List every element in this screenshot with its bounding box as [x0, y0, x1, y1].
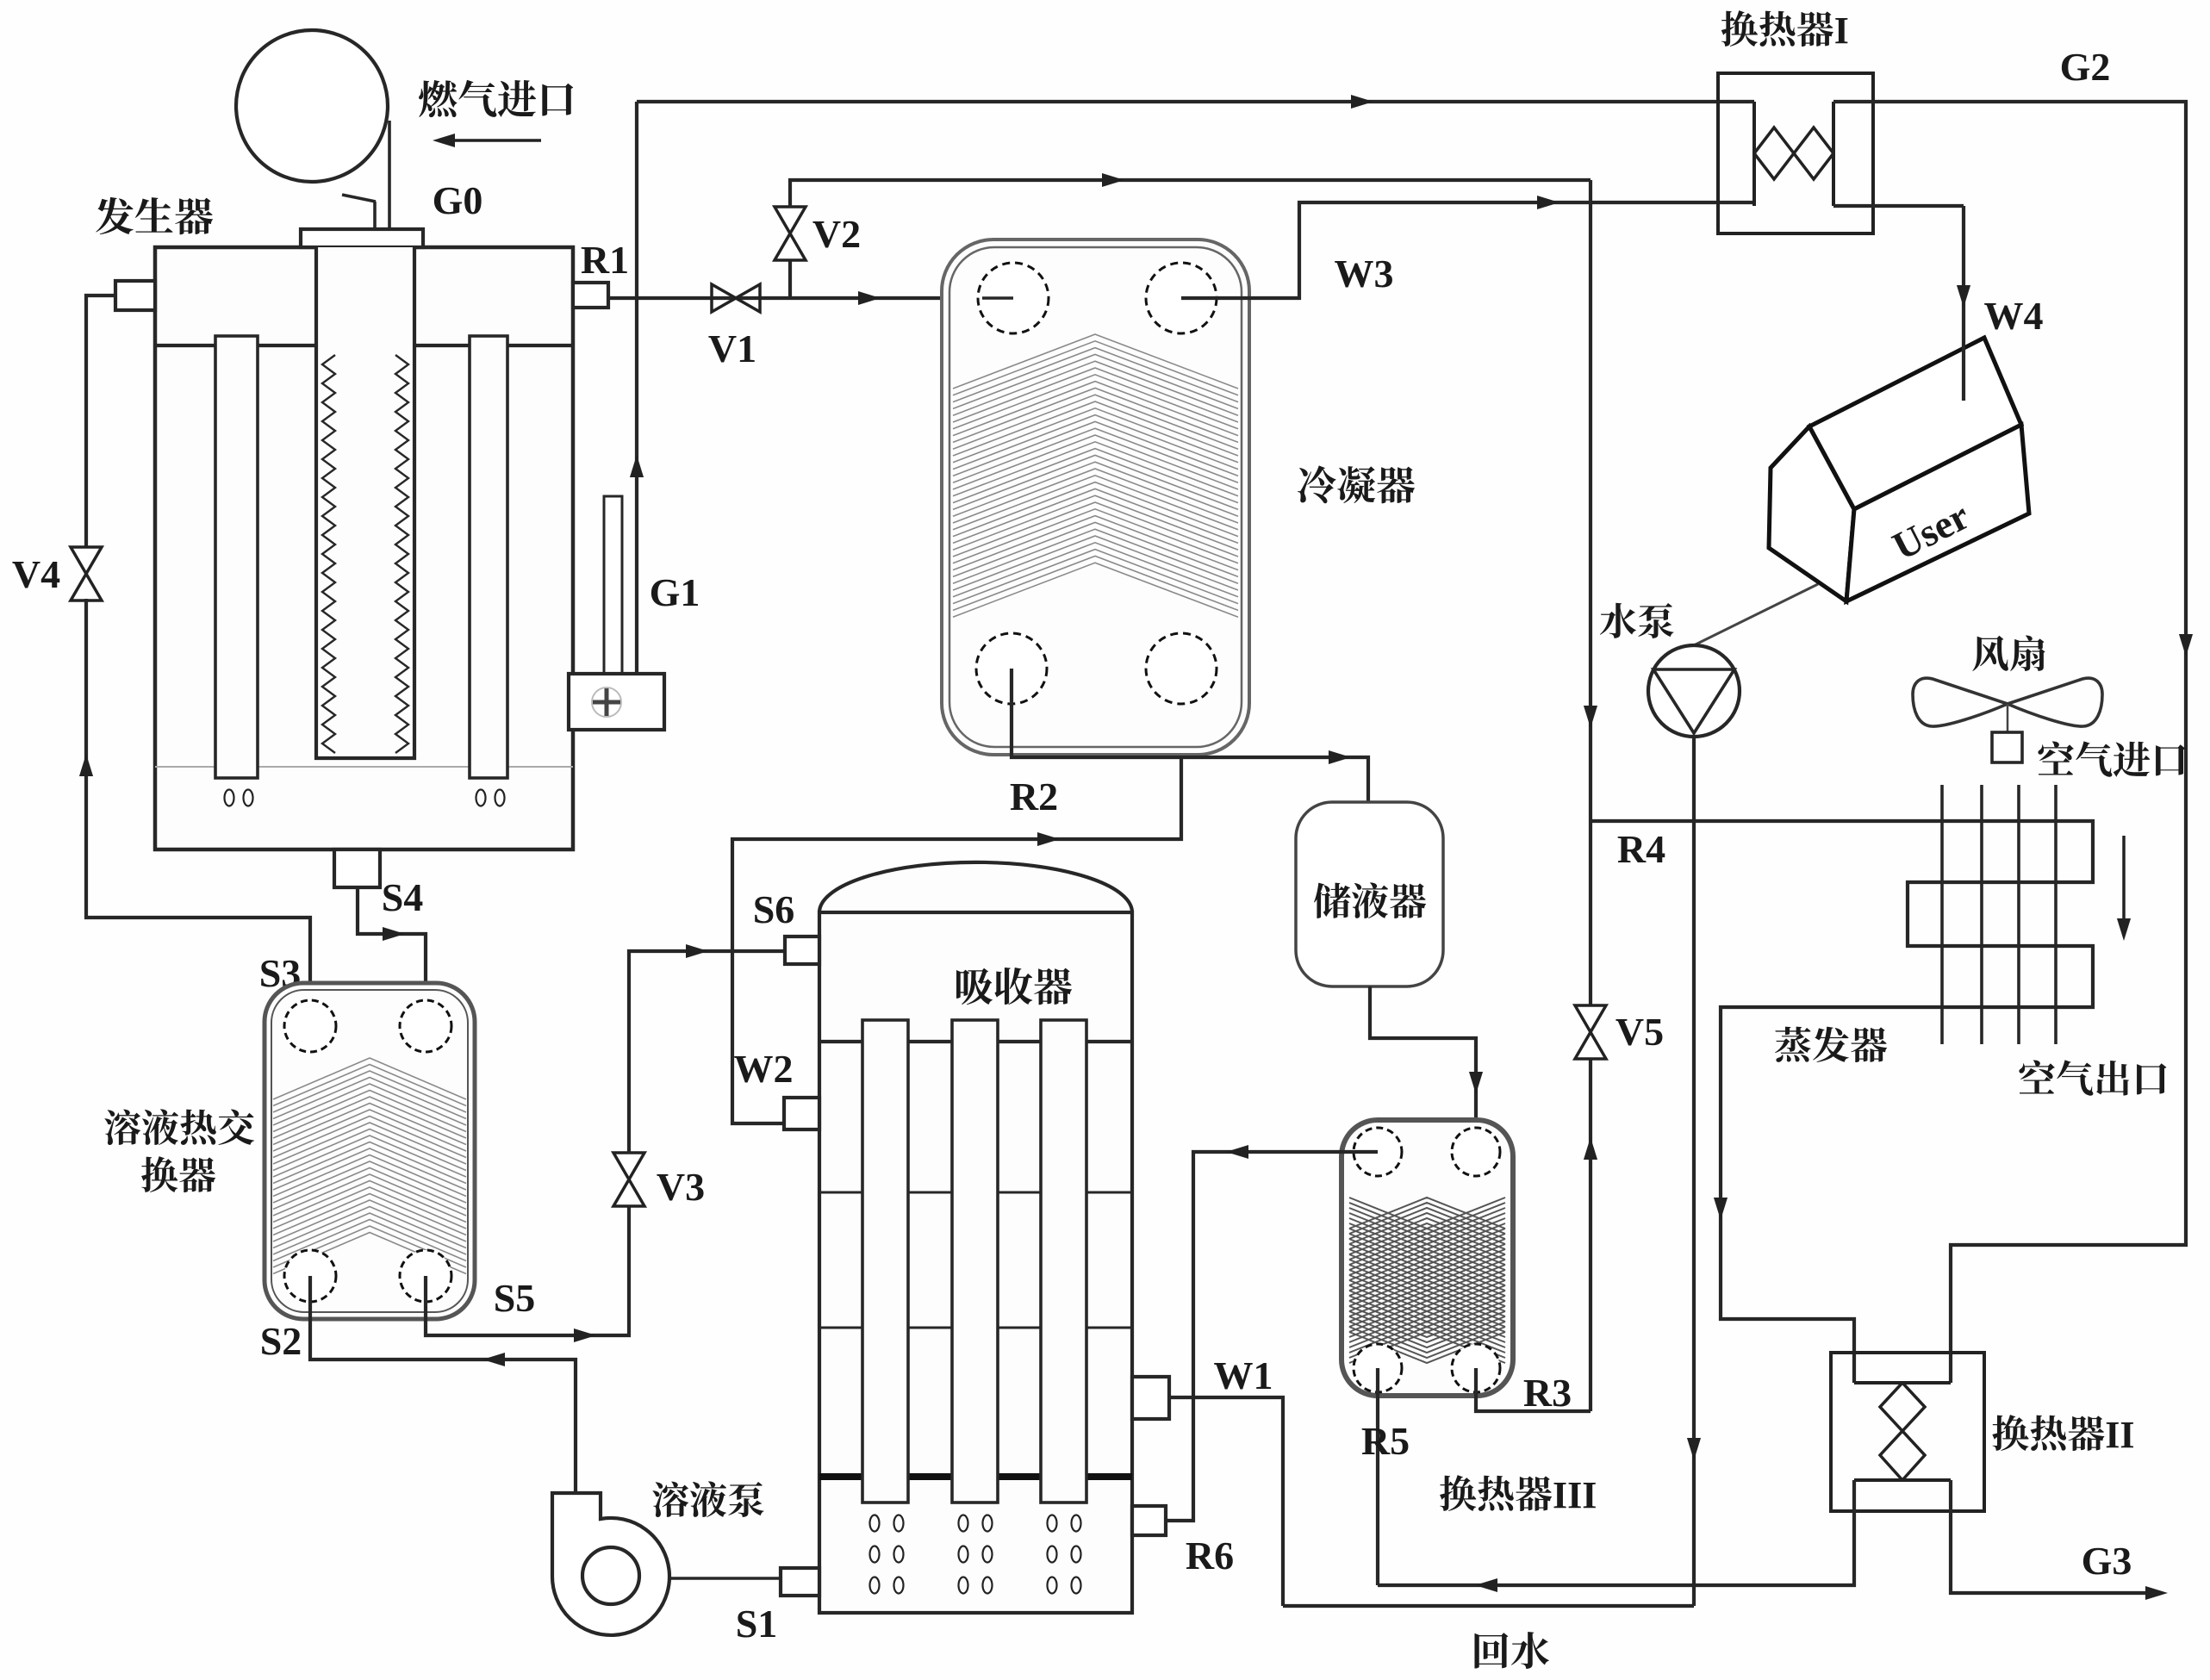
flame zigzag left: [322, 355, 335, 753]
svg-text:R5: R5: [1361, 1419, 1410, 1463]
label 发生器: [96, 197, 213, 234]
wire S5: solution HX bottom-right to V3 riser: [426, 1205, 629, 1335]
wire pump down to return water: [1692, 737, 1696, 1606]
generator burner chimney curl: [236, 30, 388, 182]
condenser 冷凝器: [942, 240, 1249, 755]
svg-text:II: II: [2105, 1414, 2134, 1456]
svg-text:R2: R2: [1010, 775, 1058, 818]
burner box with +: [569, 674, 664, 730]
wire R2 condenser to reservoir: [1012, 669, 1368, 802]
evaporator air tubes: [1940, 785, 1944, 1044]
svg-text:W2: W2: [734, 1047, 794, 1091]
reservoir 储液器: [1296, 802, 1443, 986]
svg-text:G2: G2: [2060, 45, 2111, 89]
label 换热器I: [1721, 10, 1833, 47]
svg-text:III: III: [1553, 1474, 1597, 1516]
label 蒸发器: [1775, 1027, 1887, 1062]
svg-text:V4: V4: [12, 552, 60, 596]
wire W3 condenser to heat exchanger I: [1181, 202, 1754, 298]
wire G0 flue gas to heat exchanger I: [637, 100, 1754, 103]
svg-text:G0: G0: [433, 178, 483, 222]
absorber tube 2: [952, 1020, 998, 1503]
svg-text:R6: R6: [1186, 1534, 1234, 1577]
heat exchanger II 换热器II: [1831, 1353, 1984, 1511]
svg-text:W4: W4: [1984, 294, 2044, 338]
solution pump 溶液泵: [552, 1493, 669, 1635]
generator inner tube left: [215, 336, 258, 778]
wire V3 up to S6: [629, 951, 785, 1154]
label 换热器III: [1440, 1475, 1552, 1511]
label 空气出口: [2019, 1060, 2166, 1095]
svg-text:W3: W3: [1335, 252, 1394, 296]
wire HX III water out to R6: [1166, 1152, 1378, 1521]
generator bottom funnel: [334, 849, 380, 887]
wire HX II bottom-left to R5 run: [1378, 1480, 1854, 1585]
flame zigzag right: [395, 355, 408, 753]
wire W2 absorber to condenser: [732, 669, 1181, 1123]
air flow arrow: [2122, 836, 2126, 924]
svg-text:S4: S4: [382, 875, 424, 919]
gas inlet arrow: [441, 139, 541, 142]
absorber tube 3: [1041, 1020, 1086, 1503]
absorber port W2 tab: [784, 1098, 819, 1129]
svg-text:G3: G3: [2082, 1539, 2132, 1583]
svg-text:R4: R4: [1617, 827, 1665, 871]
wire R1 generator to condenser: [608, 296, 1013, 300]
generator bubbles: [225, 790, 234, 806]
label 空气进口: [2038, 741, 2185, 776]
valve V4: [71, 547, 102, 600]
generator inner tube right: [470, 336, 507, 778]
svg-text:V5: V5: [1615, 1010, 1664, 1054]
label 水泵: [1600, 603, 1674, 638]
svg-text:R3: R3: [1523, 1371, 1572, 1415]
svg-text:V3: V3: [657, 1165, 705, 1209]
wire G1 flue riser: [635, 102, 638, 674]
absorber port S1 tab: [781, 1568, 819, 1596]
label 换热器II: [1992, 1415, 2104, 1451]
absorber 吸收器: [819, 862, 1132, 912]
absorber port W1 tab: [1132, 1377, 1169, 1419]
heat exchanger I 换热器I: [1718, 73, 1873, 233]
absorber liquid level line: [819, 1473, 1132, 1480]
wire R3 HX III to R4 riser: [1476, 1368, 1591, 1411]
wire R5 HX III to lower run: [1376, 1368, 1379, 1585]
G1 thermometer tube: [604, 496, 622, 681]
label 冷凝器: [1298, 465, 1415, 503]
generator left port tab: [115, 281, 155, 310]
wire reservoir to HX III: [1370, 986, 1476, 1152]
wire V2 branch: [788, 260, 792, 298]
wire W1 return water port: [1169, 1397, 1283, 1606]
svg-text:I: I: [1834, 9, 1849, 52]
svg-text:S6: S6: [753, 887, 795, 931]
wire return water 回水: [1283, 1604, 1694, 1608]
fan 风扇: [1913, 678, 2008, 726]
wire S1 pump to absorber: [669, 1577, 781, 1580]
absorber port R6 tab: [1132, 1506, 1166, 1535]
absorber baffles: [819, 1192, 1132, 1194]
evaporator serpentine 蒸发器: [1591, 821, 2093, 1383]
user house: [1769, 426, 1854, 601]
label 吸收器: [956, 968, 1072, 1005]
valve V1: [712, 284, 760, 312]
svg-text:G1: G1: [650, 570, 700, 614]
generator top cap: [301, 229, 423, 247]
generator vessel 发生器: [155, 247, 573, 849]
wire user house to water pump: [1694, 584, 1818, 645]
wire G3 out: [1951, 1480, 2158, 1593]
svg-text:V1: V1: [708, 327, 756, 370]
heat exchanger III 换热器III: [1342, 1120, 1513, 1396]
svg-text:S5: S5: [494, 1276, 536, 1320]
wire W4 out of HX I: [1833, 204, 1964, 208]
wire S4 generator funnel to solution HX: [358, 887, 426, 1026]
label 回水: [1474, 1632, 1548, 1669]
absorber port S6 tab: [785, 936, 819, 964]
generator right port tab R1: [573, 283, 608, 308]
wire V2 to R4 drop: [790, 180, 1591, 208]
wire V4 down to S3 corner: [86, 599, 310, 1026]
valve V2: [775, 207, 806, 260]
solution heat exchanger 溶液热交换器: [265, 983, 475, 1319]
wire S2: pump to solution HX bottom-left: [310, 1276, 576, 1493]
svg-text:S1: S1: [736, 1602, 778, 1646]
absorber bubbles: [870, 1515, 880, 1532]
label 燃气进口: [419, 80, 573, 117]
label 风扇: [1972, 635, 2045, 671]
wire R4 riser: [1589, 180, 1592, 1006]
absorber tube 1: [862, 1020, 908, 1503]
svg-text:R1: R1: [581, 238, 629, 282]
svg-text:S2: S2: [260, 1319, 302, 1363]
valve V3: [613, 1153, 644, 1206]
label 溶液热交换器: [104, 1109, 254, 1145]
wire W4 to user house: [1962, 206, 1965, 401]
label 储液器: [1314, 882, 1426, 918]
valve V5: [1575, 1005, 1606, 1059]
svg-text:W1: W1: [1214, 1353, 1273, 1397]
generator central burner column: [316, 247, 414, 758]
water pump 水泵: [1648, 645, 1740, 737]
svg-text:V2: V2: [812, 212, 861, 256]
wire G2 out of HX I: [1833, 102, 2186, 1383]
label 溶液泵: [652, 1481, 763, 1517]
wire generator left port to V4: [86, 296, 115, 549]
